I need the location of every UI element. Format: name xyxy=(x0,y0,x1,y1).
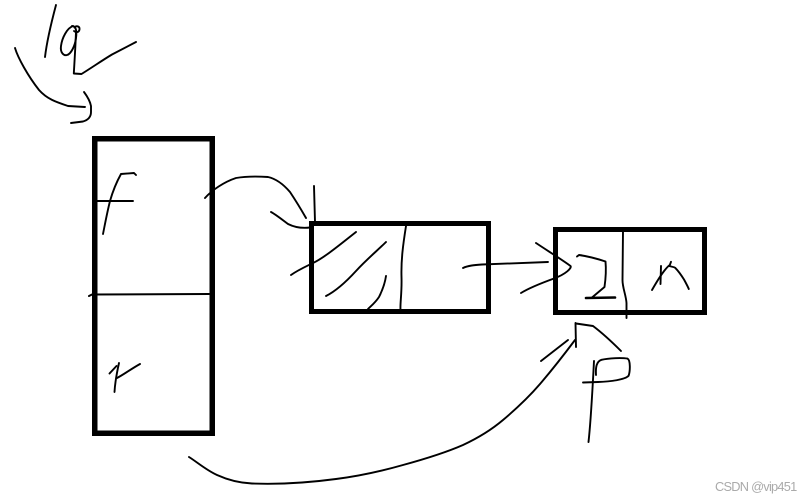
node A label r xyxy=(115,363,120,392)
node A box (left tall box) xyxy=(95,139,213,434)
node B scribble 3 xyxy=(368,276,386,309)
wire node B to node C xyxy=(463,262,548,268)
wire p to node C (long bottom curve) xyxy=(189,340,575,484)
arrowhead at node C xyxy=(521,243,571,293)
node B box (middle box) xyxy=(312,224,489,312)
node C label n xyxy=(660,266,663,284)
label 19 (top-left scribble) xyxy=(45,5,56,57)
wire node A to node B xyxy=(205,177,306,218)
node B scribble 1 xyxy=(291,232,356,275)
node A label f xyxy=(103,173,136,234)
node A divider xyxy=(89,294,209,296)
label p xyxy=(589,361,595,442)
node C divider xyxy=(623,231,627,318)
arrowhead at node B xyxy=(271,212,310,228)
node C label 2 xyxy=(577,255,606,298)
node C box (right box) xyxy=(556,230,705,313)
arrowhead up at node C xyxy=(575,323,578,347)
node B top tick xyxy=(314,186,315,222)
node B divider xyxy=(400,226,406,310)
arrow into node A (curved, top-left) xyxy=(15,48,85,107)
watermark xyxy=(715,479,797,494)
node B scribble 2 xyxy=(326,242,386,296)
